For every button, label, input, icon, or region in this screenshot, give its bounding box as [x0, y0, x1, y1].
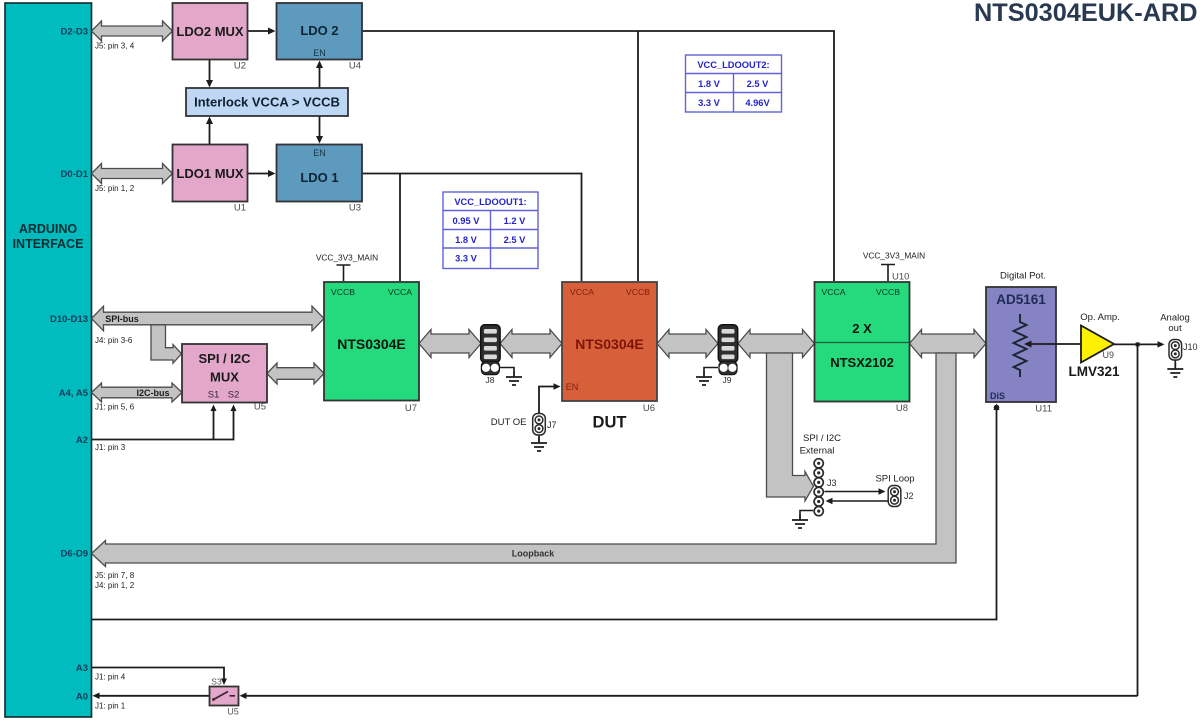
pin column J3	[814, 459, 823, 468]
table VCC_LDOOUT2	[686, 55, 782, 112]
svg-text:LDO 1: LDO 1	[300, 170, 338, 185]
wire LDO2 MUX to LDO 2	[248, 30, 271, 32]
wire A3 to switch S3	[92, 668, 225, 680]
block 2X NTSX2102 U8	[815, 282, 910, 402]
svg-text:J10: J10	[1183, 342, 1198, 352]
svg-text:U5: U5	[227, 707, 239, 717]
potentiometer resistor symbol	[1014, 314, 1027, 377]
wire VCC_LDOOUT1 from LDO1 to U7 VCCA and DUT VCCA	[362, 174, 582, 282]
bus arrow J9 to U8	[738, 330, 815, 358]
wire op-amp output down to A0 loop	[1137, 344, 1139, 696]
svg-text:LDO1 MUX: LDO1 MUX	[176, 166, 244, 181]
svg-text:DiS: DiS	[990, 391, 1005, 401]
svg-text:AD5161: AD5161	[996, 292, 1046, 307]
svg-text:D10-D13: D10-D13	[50, 314, 88, 325]
svg-text:DUT OE: DUT OE	[491, 417, 527, 428]
svg-text:SPI / I2C: SPI / I2C	[198, 351, 251, 366]
svg-text:U4: U4	[349, 61, 361, 72]
svg-text:EN: EN	[313, 48, 326, 58]
svg-text:3.3 V: 3.3 V	[698, 98, 721, 108]
wire interlock to LDO 2 EN	[319, 66, 321, 88]
svg-text:VCCA: VCCA	[570, 287, 594, 297]
svg-text:VCCB: VCCB	[626, 287, 650, 297]
svg-text:J3: J3	[827, 478, 837, 488]
wire DUT OE J7 to DUT EN	[539, 387, 554, 414]
table VCC_LDOOUT1	[443, 192, 538, 269]
bus arrow U8 to AD5161	[910, 330, 987, 358]
svg-text:S3: S3	[211, 677, 222, 687]
wire DiS control from interface to AD5161	[92, 405, 997, 620]
svg-text:U1: U1	[234, 203, 246, 214]
bus arrow D2-D3 to LDO2 MUX	[92, 21, 173, 41]
block LDO1 MUX U1	[173, 145, 248, 202]
jumper J10	[1169, 340, 1182, 361]
svg-text:MUX: MUX	[210, 370, 239, 385]
svg-text:3.3 V: 3.3 V	[455, 254, 478, 264]
block AD5161 digital potentiometer U11	[986, 287, 1056, 402]
ground at J9	[704, 368, 718, 372]
svg-text:Interlock VCCA > VCCB: Interlock VCCA > VCCB	[194, 95, 340, 110]
svg-text:J4: pin 3-6: J4: pin 3-6	[95, 336, 133, 345]
wire J2 to J3 lower with arrow	[831, 500, 888, 502]
bus arrow J8 to DUT	[500, 330, 562, 358]
svg-text:SPI-bus: SPI-bus	[105, 314, 139, 324]
block DUT NTS0304E U6	[562, 282, 657, 401]
svg-text:1.8 V: 1.8 V	[455, 235, 478, 245]
wire A2 to MUX S1 S2	[92, 410, 234, 440]
svg-text:2.5 V: 2.5 V	[747, 79, 770, 89]
svg-text:I2C-bus: I2C-bus	[136, 388, 169, 398]
svg-text:SPI / I2C: SPI / I2C	[803, 433, 841, 444]
block LDO2 MUX U2	[173, 3, 248, 60]
bus arrow D0-D1 to LDO1 MUX	[92, 164, 173, 184]
svg-text:D0-D1: D0-D1	[61, 169, 89, 180]
ground at J3	[800, 511, 813, 515]
svg-text:D6-D9: D6-D9	[61, 549, 88, 560]
svg-text:Op. Amp.: Op. Amp.	[1080, 312, 1120, 323]
block ARDUINO INTERFACE	[5, 3, 92, 717]
wire interlock to LDO 1 EN	[319, 116, 321, 138]
svg-text:LDO 2: LDO 2	[300, 23, 338, 38]
svg-text:NTS0304EUK-ARD: NTS0304EUK-ARD	[974, 0, 1198, 27]
svg-text:J4: pin 1, 2: J4: pin 1, 2	[95, 581, 135, 590]
wire VCC_LDOOUT2 from LDO2 to DUT VCCB and U8 VCCA	[362, 31, 834, 281]
svg-text:VCCB: VCCB	[331, 287, 355, 297]
svg-text:NTS0304E: NTS0304E	[337, 336, 405, 352]
svg-text:External: External	[800, 446, 835, 457]
block Interlock VCCA > VCCB	[186, 88, 348, 116]
bus branch down to SPI/I2C External J3	[767, 353, 814, 501]
svg-text:ARDUINO: ARDUINO	[19, 222, 78, 236]
svg-text:J5: pin 1, 2: J5: pin 1, 2	[95, 184, 135, 193]
svg-text:S2: S2	[228, 390, 240, 401]
svg-text:VCCA: VCCA	[388, 287, 412, 297]
bus arrow MUX to U7	[267, 363, 324, 384]
svg-text:0.95 V: 0.95 V	[453, 216, 481, 226]
svg-text:1.2 V: 1.2 V	[504, 216, 527, 226]
jumper J7	[533, 414, 546, 436]
svg-text:U7: U7	[405, 403, 417, 414]
block LDO 1 U3	[277, 145, 363, 202]
svg-text:A2: A2	[76, 435, 88, 446]
svg-text:Digital Pot.: Digital Pot.	[1000, 271, 1046, 282]
bus arrow DUT to J9	[657, 330, 718, 358]
wire A0 from S3 to interface	[99, 695, 210, 697]
svg-text:NTSX2102: NTSX2102	[830, 355, 894, 370]
wire LDO2 MUX to interlock	[209, 60, 211, 82]
svg-text:A3: A3	[76, 663, 88, 674]
svg-text:2 X: 2 X	[852, 321, 872, 336]
bus arrow U7 to J8	[419, 330, 481, 358]
svg-text:U2: U2	[234, 61, 246, 72]
svg-text:J5: pin 7, 8: J5: pin 7, 8	[95, 571, 135, 580]
bus arrow I2C-bus to MUX	[92, 383, 183, 402]
ground at J7	[538, 435, 540, 438]
svg-text:VCCB: VCCB	[876, 287, 900, 297]
block SPI / I2C MUX U5	[182, 344, 267, 403]
svg-text:D2-D3: D2-D3	[61, 27, 88, 38]
svg-text:J1: pin 4: J1: pin 4	[95, 673, 126, 682]
svg-text:J5: pin 3, 4: J5: pin 3, 4	[95, 42, 135, 51]
svg-text:U10: U10	[892, 272, 909, 283]
op-amp U9 LMV321 triangle	[1081, 326, 1114, 363]
svg-text:U3: U3	[349, 203, 361, 214]
svg-text:A0: A0	[76, 692, 88, 703]
svg-text:J2: J2	[904, 491, 914, 501]
block LDO 2 U4	[277, 3, 363, 60]
block NTS0304E U7	[324, 282, 419, 401]
wire LDO1 MUX to LDO 1	[248, 173, 271, 175]
jumper header J8	[481, 325, 500, 363]
svg-text:VCC_LDOOUT2:: VCC_LDOOUT2:	[697, 60, 769, 70]
wire op-amp output to J10 with junction	[1114, 343, 1158, 345]
svg-text:4.96V: 4.96V	[745, 98, 770, 108]
svg-text:J1: pin 3: J1: pin 3	[95, 443, 126, 452]
svg-text:J9: J9	[723, 375, 732, 385]
ground at J8	[500, 368, 514, 372]
svg-text:S1: S1	[208, 390, 220, 401]
svg-text:INTERFACE: INTERFACE	[13, 237, 84, 251]
svg-text:U9: U9	[1102, 350, 1114, 360]
svg-text:LMV321: LMV321	[1068, 364, 1120, 379]
wire op-amp loop to S3 right side	[245, 695, 1138, 697]
svg-text:DUT: DUT	[593, 414, 627, 432]
bus Loopback from arrow shaft down and left to interface	[92, 353, 957, 567]
ground at J10	[1174, 360, 1176, 364]
svg-text:J7: J7	[547, 420, 557, 430]
svg-text:out: out	[1168, 323, 1182, 334]
svg-text:2.5 V: 2.5 V	[504, 235, 527, 245]
svg-text:J1: pin 1: J1: pin 1	[95, 702, 126, 711]
svg-text:LDO2 MUX: LDO2 MUX	[176, 24, 244, 39]
svg-text:A4, A5: A4, A5	[59, 388, 89, 399]
svg-text:VCC_3V3_MAIN: VCC_3V3_MAIN	[863, 251, 925, 261]
svg-text:U5: U5	[254, 402, 266, 413]
svg-text:VCC_LDOOUT1:: VCC_LDOOUT1:	[454, 197, 526, 207]
svg-text:1.8 V: 1.8 V	[698, 79, 721, 89]
jumper header J9	[718, 325, 737, 363]
svg-text:J8: J8	[486, 375, 495, 385]
wiper arrow and output wire to op-amp	[1030, 343, 1081, 345]
svg-text:NTS0304E: NTS0304E	[575, 336, 643, 352]
svg-text:EN: EN	[313, 148, 326, 158]
svg-text:U8: U8	[896, 403, 908, 414]
svg-text:Loopback: Loopback	[512, 549, 555, 559]
svg-text:U11: U11	[1035, 404, 1052, 415]
svg-text:VCCA: VCCA	[821, 287, 845, 297]
svg-text:SPI Loop: SPI Loop	[875, 474, 914, 485]
switch S3 U5	[210, 687, 239, 706]
svg-text:VCC_3V3_MAIN: VCC_3V3_MAIN	[316, 253, 378, 263]
jumper J2	[888, 486, 901, 507]
svg-text:Analog: Analog	[1160, 313, 1190, 324]
svg-text:EN: EN	[566, 382, 579, 392]
bus arrow SPI-bus to U7	[92, 306, 325, 331]
wire J3 to J2 upper with arrow	[825, 491, 880, 493]
svg-text:U6: U6	[643, 403, 655, 414]
wire LDO1 MUX to interlock	[209, 123, 211, 145]
svg-text:J1: pin 5, 6: J1: pin 5, 6	[95, 403, 135, 412]
bus branch SPI-bus to SPI/I2C MUX	[151, 325, 182, 363]
